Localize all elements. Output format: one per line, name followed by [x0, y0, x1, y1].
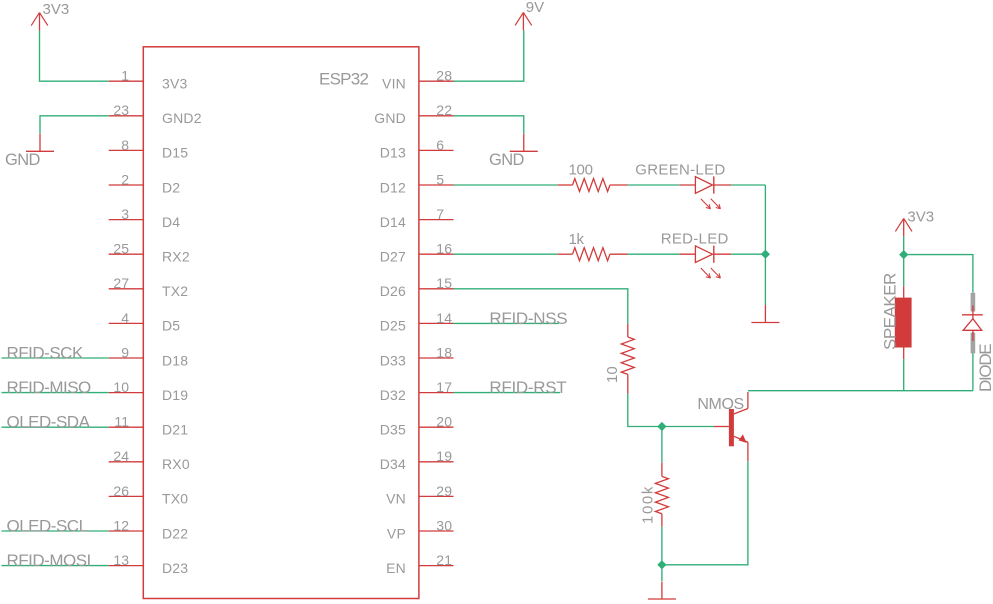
svg-text:GND2: GND2 — [162, 110, 202, 126]
svg-text:11: 11 — [114, 414, 129, 430]
svg-text:VN: VN — [386, 491, 406, 507]
svg-text:RX2: RX2 — [162, 249, 190, 265]
svg-text:D4: D4 — [162, 214, 180, 230]
svg-text:GND: GND — [374, 110, 406, 126]
svg-text:RFID-MOSI: RFID-MOSI — [7, 551, 91, 570]
svg-text:D23: D23 — [162, 560, 188, 576]
svg-text:4: 4 — [121, 310, 129, 326]
svg-text:9: 9 — [121, 344, 129, 360]
svg-text:RED-LED: RED-LED — [661, 231, 729, 248]
svg-text:26: 26 — [113, 483, 129, 499]
svg-text:VIN: VIN — [382, 76, 406, 92]
svg-text:27: 27 — [113, 275, 129, 291]
svg-text:DIODE: DIODE — [976, 344, 993, 392]
svg-text:9V: 9V — [526, 0, 544, 16]
svg-text:12: 12 — [113, 517, 129, 533]
svg-text:21: 21 — [436, 552, 452, 568]
svg-text:OLED-SCL: OLED-SCL — [7, 517, 88, 536]
svg-text:16: 16 — [436, 241, 452, 257]
svg-text:19: 19 — [436, 448, 452, 464]
svg-text:2: 2 — [121, 171, 129, 187]
svg-text:D22: D22 — [162, 525, 188, 541]
svg-text:D15: D15 — [162, 145, 188, 161]
svg-text:RFID-MISO: RFID-MISO — [7, 378, 92, 397]
svg-text:D5: D5 — [162, 318, 180, 334]
svg-text:3V3: 3V3 — [43, 1, 70, 18]
svg-text:D12: D12 — [380, 179, 406, 195]
svg-text:3V3: 3V3 — [162, 76, 188, 92]
svg-text:25: 25 — [113, 241, 129, 257]
svg-text:D25: D25 — [380, 318, 406, 334]
svg-text:29: 29 — [436, 483, 452, 499]
svg-text:RFID-NSS: RFID-NSS — [489, 309, 567, 328]
svg-text:5: 5 — [436, 171, 444, 187]
svg-text:10: 10 — [113, 379, 129, 395]
svg-text:D21: D21 — [162, 422, 188, 438]
svg-text:7: 7 — [436, 206, 444, 222]
svg-text:D34: D34 — [380, 456, 406, 472]
svg-text:20: 20 — [436, 414, 452, 430]
svg-text:D32: D32 — [380, 387, 406, 403]
svg-text:3: 3 — [121, 206, 129, 222]
svg-text:GREEN-LED: GREEN-LED — [635, 161, 725, 178]
svg-text:D14: D14 — [380, 214, 406, 230]
svg-text:EN: EN — [386, 560, 406, 576]
svg-text:24: 24 — [113, 448, 129, 464]
svg-text:17: 17 — [436, 379, 452, 395]
svg-text:28: 28 — [436, 68, 452, 84]
svg-text:D19: D19 — [162, 387, 188, 403]
svg-text:D2: D2 — [162, 179, 180, 195]
svg-text:100k: 100k — [640, 485, 657, 524]
svg-text:RX0: RX0 — [162, 456, 190, 472]
svg-text:3V3: 3V3 — [907, 209, 934, 226]
svg-text:D13: D13 — [380, 145, 406, 161]
svg-text:10: 10 — [604, 366, 621, 383]
svg-text:GND: GND — [489, 151, 525, 169]
svg-text:D27: D27 — [380, 249, 406, 265]
svg-text:RFID-RST: RFID-RST — [489, 378, 566, 397]
svg-text:OLED-SDA: OLED-SDA — [7, 413, 91, 432]
svg-text:1k: 1k — [569, 231, 585, 248]
svg-text:GND: GND — [5, 151, 41, 169]
svg-text:SPEAKER: SPEAKER — [881, 273, 900, 350]
svg-text:VP: VP — [387, 525, 406, 541]
svg-text:TX0: TX0 — [162, 491, 188, 507]
svg-text:14: 14 — [436, 310, 452, 326]
svg-text:NMOS: NMOS — [697, 396, 743, 413]
svg-text:22: 22 — [436, 102, 452, 118]
svg-text:D35: D35 — [380, 422, 406, 438]
svg-text:8: 8 — [121, 137, 129, 153]
svg-text:D18: D18 — [162, 352, 188, 368]
svg-text:13: 13 — [113, 552, 129, 568]
svg-text:1: 1 — [121, 68, 129, 84]
svg-text:6: 6 — [436, 137, 444, 153]
svg-text:18: 18 — [436, 344, 452, 360]
svg-text:RFID-SCK: RFID-SCK — [7, 344, 84, 363]
svg-text:100: 100 — [569, 162, 593, 179]
svg-text:ESP32: ESP32 — [319, 70, 368, 89]
svg-text:D26: D26 — [380, 283, 406, 299]
svg-text:23: 23 — [113, 102, 129, 118]
svg-text:30: 30 — [436, 517, 452, 533]
svg-text:15: 15 — [436, 275, 452, 291]
svg-text:D33: D33 — [380, 352, 406, 368]
svg-text:TX2: TX2 — [162, 283, 188, 299]
